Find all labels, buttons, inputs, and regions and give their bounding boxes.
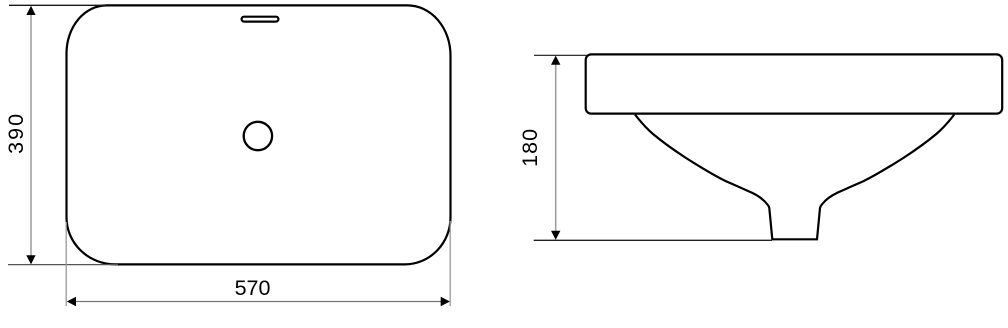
arrowhead 180 bottom bbox=[551, 231, 560, 240]
arrowhead 390 bottom bbox=[26, 255, 35, 264]
basin top-view outline bbox=[67, 5, 451, 264]
svg-text:570: 570 bbox=[235, 276, 271, 300]
extension line bottom (390) bbox=[8, 264, 118, 266]
svg-text:390: 390 bbox=[4, 112, 28, 154]
rim side-view outline bbox=[586, 54, 1003, 113]
extension line top (180) bbox=[534, 54, 587, 56]
arrowhead 180 top bbox=[551, 56, 560, 65]
svg-text:180: 180 bbox=[518, 128, 542, 167]
arrowhead 570 left bbox=[67, 297, 76, 306]
bowl profile with drain trap bbox=[635, 115, 954, 240]
extension line bottom (180) bbox=[534, 239, 772, 241]
arrowhead 390 top bbox=[26, 6, 35, 15]
extension line right vertical (570) bbox=[449, 221, 451, 306]
extension line top (390) bbox=[9, 4, 106, 6]
arrowhead 570 right bbox=[441, 297, 450, 306]
dimension line 390 bbox=[30, 8, 32, 262]
dimension line 570 bbox=[69, 301, 447, 303]
extension line left vertical (570) bbox=[65, 222, 67, 306]
dimension line 180 bbox=[555, 58, 557, 237]
drain hole bbox=[244, 122, 272, 150]
overflow slot bbox=[242, 17, 279, 22]
